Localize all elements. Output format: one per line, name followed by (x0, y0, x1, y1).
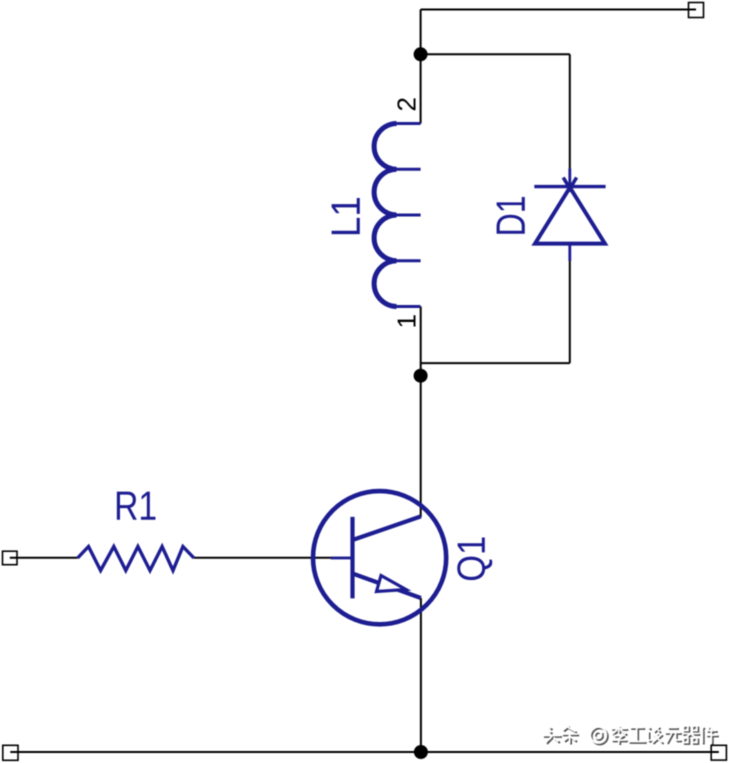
wire resistor to transistor base (194, 557, 353, 559)
pin number 2 (397, 98, 415, 110)
wire node to diode branch top (421, 53, 570, 55)
label D1 (497, 197, 525, 234)
transistor Q1 emitter arrow (377, 576, 407, 592)
label Q1 (457, 537, 492, 580)
transistor Q1 collector stroke (353, 516, 421, 540)
inductor L1 stubs (397, 124, 421, 307)
wire diode branch bottom horizontal (421, 362, 570, 364)
wire diode top vertical (569, 54, 571, 171)
wire left terminal to resistor (10, 557, 78, 559)
terminal square bottom-right (711, 745, 726, 760)
terminal square left (base input) (3, 551, 18, 565)
pin number 1 (398, 315, 416, 326)
wire diode bottom vertical (569, 259, 571, 363)
transistor Q1 circle (313, 491, 446, 624)
diode D1 top stub (568, 169, 571, 192)
terminal square bottom-left (3, 745, 18, 760)
junction node middle (414, 369, 428, 383)
terminal square top-right (689, 3, 704, 18)
diode D1 bottom stub (568, 244, 571, 261)
transistor Q1 base pin (331, 557, 351, 560)
watermark 头条 @李工谈元器件 (543, 726, 719, 746)
inductor L1 coil arcs (374, 124, 396, 307)
wire vertical from top rail to inductor pin 2 (420, 10, 422, 124)
wire bottom rail (10, 751, 719, 753)
diode D1 cathode bar (534, 185, 605, 188)
transistor Q1 base bar (350, 517, 354, 599)
junction node bottom (414, 745, 428, 759)
label L1 (332, 198, 360, 234)
diode D1 triangle (535, 188, 605, 244)
junction node top (414, 47, 428, 61)
wire emitter down to bottom rail (420, 598, 422, 752)
wire inductor pin1 down to transistor collector (420, 307, 422, 518)
wire top rail (421, 9, 696, 11)
transistor Q1 emitter stroke (353, 574, 421, 599)
diode D1 apex side extensions (563, 178, 576, 189)
resistor R1 zigzag (78, 547, 194, 571)
label R1 (117, 492, 156, 520)
